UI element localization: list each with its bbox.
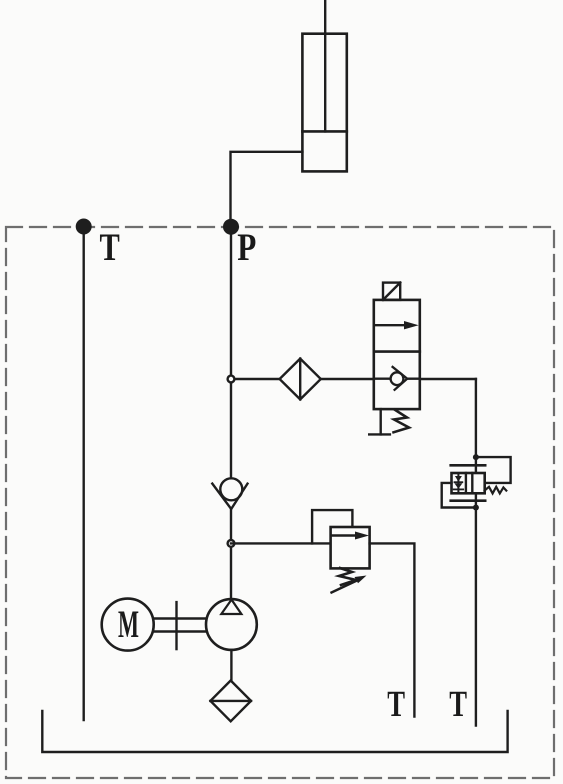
wire between check valve and pump [230, 509, 232, 600]
drain tank symbol of V1 [369, 409, 390, 434]
wire right vertical line to tank [475, 379, 477, 726]
flow control valve FC1 throttle symbol [454, 475, 464, 492]
wire main line to relief valve [231, 542, 331, 544]
solenoid valve V1 flow arrow [376, 321, 419, 329]
check valve ball inside V1 [391, 372, 404, 385]
flow control valve FC1 divider 2 [471, 473, 473, 493]
cylinder piston rod [324, 0, 326, 131]
relief valve RV1 adjustment arrow [332, 576, 367, 593]
wire pump suction [230, 650, 232, 681]
wire filter to valve [321, 378, 374, 380]
filter F1 [280, 359, 321, 400]
relief valve RV1 spring [339, 568, 356, 585]
node T [76, 219, 92, 235]
flow control valve FC1 top bar [451, 464, 486, 467]
wire cylinder port to node P [231, 152, 303, 227]
suction strainer S1 [210, 681, 251, 722]
relief valve RV1 body [331, 527, 370, 568]
cylinder body [302, 34, 346, 172]
node junction circle at filter tee [228, 376, 235, 383]
solenoid valve V1 body [374, 300, 420, 409]
svg-text:T: T [100, 226, 120, 269]
wire V1 outlet to right line [420, 378, 476, 380]
pilot line left of FC1 [442, 483, 476, 508]
check valve CV1 seat [212, 484, 247, 509]
wire tank return T line (left) [82, 227, 84, 720]
pump P1 [206, 599, 257, 650]
flow control valve FC1 divider 1 [465, 473, 467, 493]
spring of V1 [394, 410, 410, 433]
check valve CV1 ball [220, 478, 242, 500]
electric motor M1 [102, 599, 154, 651]
wire through V1 body right [407, 378, 420, 380]
relief valve RV1 flow arrow [332, 532, 369, 540]
flow control valve FC1 body [452, 473, 485, 493]
wire relief valve outlet to tank [370, 543, 415, 716]
junction dot top of FC1 [473, 454, 479, 460]
wire pressure line P vertical [230, 227, 232, 479]
svg-text:T: T [387, 684, 405, 725]
node junction circle at relief tee [228, 540, 235, 547]
wire through V1 body left [374, 378, 391, 380]
pilot line of relief valve RV1 [312, 510, 352, 543]
tank reservoir [42, 711, 507, 752]
node P [223, 219, 239, 235]
flow control valve FC1 bottom bar [451, 499, 486, 502]
svg-text:M: M [118, 603, 139, 646]
svg-text:P: P [237, 226, 256, 269]
junction dot bottom of FC1 [473, 505, 479, 511]
wire filter branch left [231, 378, 280, 380]
coupling shaft lines [154, 602, 206, 649]
flow control valve FC1 spring [485, 487, 507, 494]
check valve seat inside V1 [393, 367, 408, 390]
cylinder piston [302, 130, 346, 133]
power unit dashed boundary [6, 227, 554, 778]
solenoid valve V1 position divider [374, 350, 420, 353]
pump P1 triangle [221, 600, 241, 614]
pilot line top of FC1 [476, 457, 511, 483]
solenoid coil of V1 [383, 283, 400, 300]
svg-text:T: T [449, 684, 467, 725]
